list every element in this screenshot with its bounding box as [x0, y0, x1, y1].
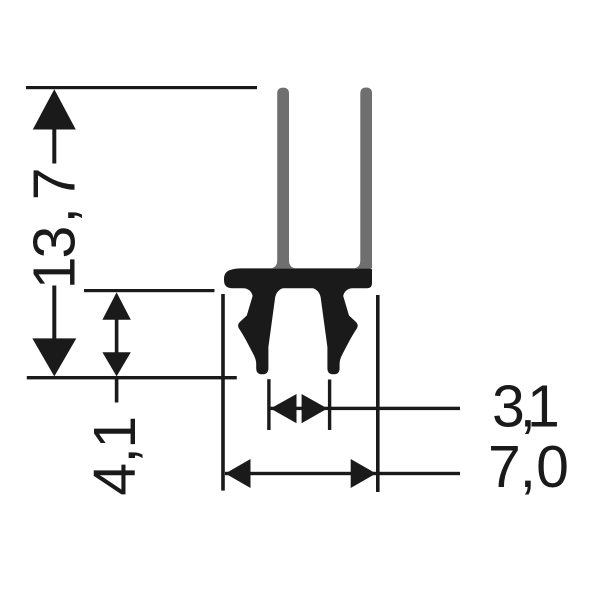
- dim 4,1 arrow down: [102, 352, 130, 376]
- svg-text:13,7: 13,7: [22, 167, 88, 289]
- ext line 7,0 right: [376, 295, 380, 492]
- dim 13,7 arrow up: [33, 89, 76, 129]
- dim 7,0 line: [225, 472, 460, 475]
- gray bar left: [272, 88, 294, 269]
- dim 13,7 tail lower: [52, 286, 56, 341]
- base-bottom reference line: [84, 289, 215, 292]
- profile left leg with barb: [238, 288, 283, 374]
- profile right leg with barb: [313, 288, 358, 374]
- dim 13,7 arrow down: [32, 338, 76, 376]
- profile base bar: [224, 268, 372, 288]
- dim 7,0 arrow right: [351, 459, 376, 488]
- ext line 7,0 left: [221, 294, 225, 491]
- top reference line: [26, 86, 257, 89]
- gray bar right: [355, 88, 372, 269]
- dim 4,1 tail middle: [115, 318, 119, 354]
- dim 7,0 arrow left: [225, 459, 250, 488]
- dim 3,1 leader line: [270, 407, 460, 410]
- dim 4,1 arrow up: [102, 292, 130, 319]
- dim 3,1 left tick: [267, 379, 270, 430]
- dim 3,1 arrow left: [271, 394, 297, 423]
- dim 3,1 right tick: [328, 380, 331, 431]
- hook-tip reference line: [27, 376, 237, 379]
- svg-text:4,1: 4,1: [82, 416, 148, 496]
- svg-text:3,1: 3,1: [492, 374, 560, 440]
- dim 4,1 tail below: [115, 376, 119, 402]
- svg-text:7,0: 7,0: [488, 434, 569, 500]
- dim 3,1 arrow right: [302, 394, 328, 423]
- dim 13,7 tail upper: [52, 127, 56, 164]
